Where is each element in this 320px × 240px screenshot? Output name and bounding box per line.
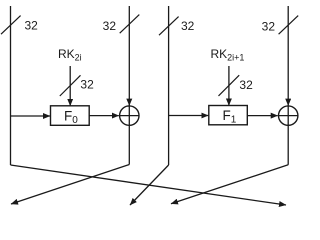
- wire: output diagonal from XOR X1 to third output: [171, 165, 288, 204]
- svg-text:32: 32: [181, 19, 195, 33]
- wire: input line 1 vertical arrow into XOR X0 (x=129.3): [128, 6, 130, 106]
- bus-width slash on line 0: [1, 16, 21, 35]
- wire: XOR X0 output vertical below circle: [128, 125, 130, 164]
- wire: XOR X1 output vertical below circle: [287, 125, 289, 165]
- wire: output diagonal from line 2 to second output: [130, 165, 169, 205]
- bus-width slash on line 2: [159, 17, 179, 36]
- svg-text:32: 32: [103, 19, 117, 33]
- wire: round key RK2i arrow into F0: [69, 66, 71, 106]
- wire: output diagonal from XOR X0 to leftmost output: [11, 165, 129, 205]
- svg-text:32: 32: [239, 78, 253, 92]
- XOR adder X1: [279, 106, 298, 125]
- svg-text:32: 32: [80, 78, 94, 92]
- svg-text:RK2i+1: RK2i+1: [211, 47, 245, 63]
- wire: input line 3 vertical arrow into XOR X1 (x=288.2): [287, 6, 289, 106]
- function block F1: [209, 106, 248, 126]
- wire: F0 output into XOR X0: [89, 115, 119, 117]
- wire: round key RK2i+1 arrow into F1: [228, 66, 230, 106]
- wire: input line 0 vertical (x=10.5): [10, 6, 12, 165]
- svg-text:RK2i: RK2i: [58, 47, 82, 63]
- bus-width slash on RK2i arrow: [60, 75, 81, 96]
- bus-width slash on RK2i+1 arrow: [219, 75, 240, 96]
- function block F0: [51, 106, 90, 126]
- svg-text:32: 32: [25, 19, 39, 33]
- svg-text:32: 32: [262, 20, 276, 34]
- wire: F1 output into XOR X1: [247, 115, 277, 117]
- wire: input line 2 vertical (x=168.6): [168, 6, 170, 165]
- XOR adder X0: [120, 106, 139, 125]
- bus-width slash on line 1: [120, 15, 140, 34]
- wire: branch from line 0 into F0: [11, 115, 51, 117]
- wire: output diagonal from line 0 to rightmost output: [11, 165, 287, 205]
- bus-width slash on line 3: [279, 16, 299, 35]
- wire: branch from line 2 into F1: [169, 115, 209, 117]
